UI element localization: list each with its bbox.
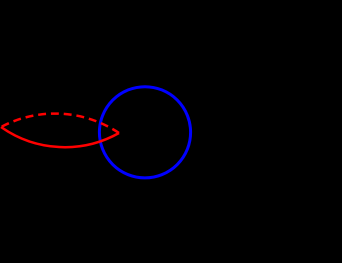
blue circle (99, 87, 190, 178)
red lens top arc (dashed) (1, 114, 119, 133)
red lens bottom arc (solid) (1, 127, 119, 147)
